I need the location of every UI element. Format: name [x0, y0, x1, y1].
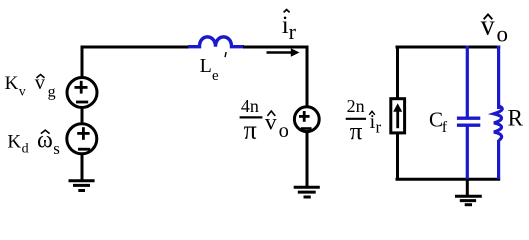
label 4n/pi vo [240, 96, 289, 145]
plus sign V1 [75, 81, 88, 94]
svg-text:r: r [376, 117, 382, 136]
label Le' [200, 52, 227, 84]
svg-text:L: L [200, 55, 212, 77]
right circuit left rail lower [396, 133, 399, 181]
wire vertical middle branch top [306, 46, 309, 108]
ground G3 stem [466, 180, 469, 195]
resistor branch upper wire (blue) [497, 46, 500, 110]
right circuit bottom wire [396, 178, 501, 181]
inductor Le' (blue, two humps) [188, 37, 244, 47]
label 2n/pi ir [346, 96, 382, 145]
svg-text:r: r [289, 19, 297, 44]
svg-text:K: K [7, 132, 21, 153]
svg-text:4n: 4n [241, 96, 259, 116]
svg-text:K: K [5, 73, 19, 94]
label Cf [429, 107, 448, 136]
ground G3 [455, 196, 482, 204]
ground G2 [294, 187, 320, 197]
label Kv vg [5, 72, 56, 101]
wire vertical from top wire down to source V1 [81, 46, 84, 79]
wire V2 to ground [81, 153, 84, 182]
svg-text:π: π [350, 119, 363, 146]
resistor R squiggle [494, 106, 502, 140]
svg-text:R: R [508, 105, 524, 130]
wire middle branch to ground [306, 131, 309, 187]
capacitor Cf plates [457, 118, 480, 125]
svg-text:2n: 2n [347, 96, 365, 116]
minus sign U2 [301, 127, 312, 130]
svg-text:s: s [53, 139, 60, 158]
current source box 2n/pi ir [391, 99, 405, 133]
capacitor branch upper wire (blue) [466, 46, 469, 118]
svg-text:e: e [212, 68, 219, 84]
arrow inside current source [393, 103, 402, 128]
dependent source 4n/pi vo circle [294, 107, 319, 132]
arrow for current i_r [267, 48, 300, 57]
voltage source V2 Kd ws circle [67, 124, 97, 154]
minus sign V1 [76, 101, 88, 104]
svg-text:v: v [265, 110, 277, 136]
minus sign V2 [78, 148, 90, 151]
wire top horizontal from inductor to right corner [243, 46, 309, 49]
svg-text:π: π [244, 116, 257, 145]
ground G1 [69, 181, 95, 191]
svg-text:v: v [19, 85, 26, 100]
right circuit left rail upper [396, 46, 399, 100]
capacitor branch lower wire (blue) [466, 126, 469, 179]
voltage source V1 Kv vg circle [67, 78, 97, 108]
svg-text:g: g [48, 84, 56, 101]
wire top-left horizontal from source branch to inductor [81, 46, 190, 49]
label i_r (hat) [282, 10, 297, 45]
svg-text:o: o [497, 21, 509, 46]
label vo (hat) top right [481, 10, 508, 46]
svg-text:d: d [22, 141, 29, 156]
plus sign U2 [299, 111, 310, 122]
svg-text:o: o [279, 120, 289, 142]
label Kd ws [7, 128, 59, 158]
resistor branch lower wire (blue) [497, 140, 500, 179]
wire between V1 and V2 [81, 106, 84, 125]
right circuit top wire [396, 46, 501, 49]
plus sign V2 [77, 127, 89, 140]
svg-text:f: f [442, 119, 448, 136]
